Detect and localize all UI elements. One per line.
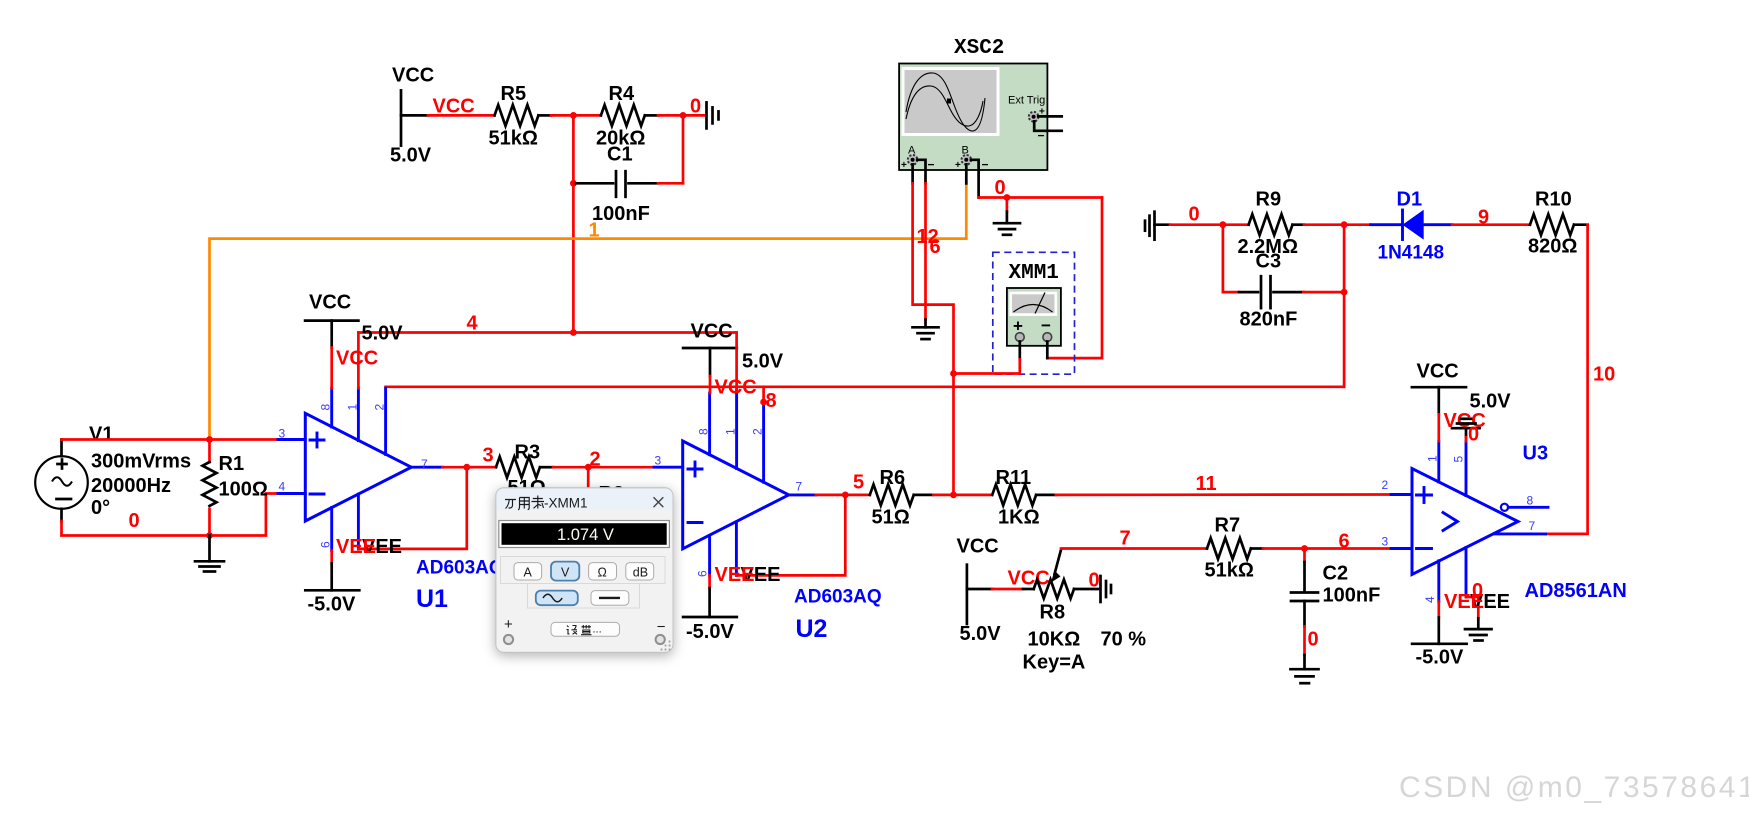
svg-text:U1: U1: [416, 585, 448, 613]
node junction R1 bottom: [206, 532, 213, 539]
dialog button ohm: [589, 563, 617, 580]
wire scope A+ to node 12: [913, 183, 954, 495]
resistor R1: [203, 440, 268, 536]
svg-text:6: 6: [696, 570, 710, 577]
wire net 11: [1056, 493, 1391, 496]
capacitor C3 820nF: [1223, 225, 1304, 331]
svg-text:VCC: VCC: [691, 321, 733, 343]
svg-text:VCC: VCC: [1008, 568, 1050, 590]
dialog plus terminal: [504, 616, 513, 644]
dialog button A: [514, 563, 542, 580]
svg-text:A: A: [524, 565, 533, 579]
svg-text:1KΩ: 1KΩ: [998, 507, 1040, 529]
svg-text:Key=A: Key=A: [1023, 652, 1086, 674]
dialog button sine selected: [536, 591, 578, 606]
svg-text:8: 8: [697, 428, 711, 435]
svg-text:100Ω: 100Ω: [219, 479, 268, 501]
svg-text:R9: R9: [1256, 189, 1282, 211]
svg-text:VCC: VCC: [392, 65, 434, 87]
ground under C2: [1291, 669, 1319, 683]
svg-text:XMM1: XMM1: [1009, 262, 1059, 285]
ground right of R8: [1101, 576, 1112, 602]
node junction net4: [570, 329, 577, 336]
resistor R6: [870, 467, 934, 529]
dialog title CJK and text: [505, 496, 544, 511]
svg-text:1: 1: [346, 404, 360, 411]
wire net 10: [1546, 225, 1588, 534]
wire net0 to XMM1 minus: [1047, 198, 1102, 359]
svg-text:-5.0V: -5.0V: [308, 594, 356, 616]
ground left of R9: [1145, 212, 1170, 240]
resistor R7: [1205, 515, 1264, 582]
svg-text:820Ω: 820Ω: [1528, 236, 1577, 258]
node 8 junction: [760, 399, 767, 406]
svg-text:1.074 V: 1.074 V: [557, 526, 614, 544]
ground under U3 pin6: [1465, 629, 1492, 640]
wire XMM1 plus to node 12: [954, 360, 1020, 374]
wire VCC to R8: [967, 588, 992, 591]
svg-text:R7: R7: [1215, 515, 1241, 537]
svg-text:R3: R3: [515, 442, 541, 464]
svg-text:VEE: VEE: [336, 536, 376, 558]
svg-text:+: +: [955, 160, 961, 171]
node junction C1 left: [570, 180, 577, 187]
svg-text:−: −: [928, 158, 935, 172]
dialog display 1.074 V: [499, 521, 670, 548]
svg-text:3: 3: [1382, 535, 1389, 549]
wire C1 right to node 0: [658, 182, 683, 185]
svg-text:...: ...: [593, 624, 602, 636]
svg-text:3: 3: [483, 445, 494, 467]
wire pin6 U3 to ground: [1466, 597, 1478, 618]
ground right of R4: [707, 102, 719, 128]
node junction R9 right: [1341, 221, 1348, 228]
svg-text:20000Hz: 20000Hz: [91, 475, 171, 497]
svg-text:-XMM1: -XMM1: [544, 496, 588, 511]
svg-text:6: 6: [1339, 531, 1350, 553]
svg-text:AD603AQ: AD603AQ: [794, 587, 882, 608]
wire U2 feedback to pin5: [736, 495, 845, 576]
svg-text:R1: R1: [219, 453, 245, 475]
svg-text:10KΩ: 10KΩ: [1028, 629, 1081, 651]
diode D1 1N4148: [1371, 189, 1452, 264]
wire C3 right to junction: [1303, 291, 1344, 294]
resistor R10: [1528, 189, 1588, 258]
node junction R6/R11/XMM: [950, 492, 957, 499]
svg-text:R4: R4: [609, 83, 635, 105]
dialog button dB: [626, 563, 654, 580]
svg-text:100nF: 100nF: [592, 203, 650, 225]
power VCC supply for R5: [390, 65, 434, 167]
svg-text:VCC: VCC: [957, 536, 999, 558]
resistor R4: [596, 83, 645, 150]
svg-text:VCC: VCC: [309, 292, 351, 314]
ground under scope A-: [913, 327, 939, 339]
wire R3 to U2: [553, 466, 654, 469]
svg-text:1: 1: [1426, 455, 1440, 462]
node 0 junction scope: [1004, 194, 1011, 201]
dialog group boxes: [501, 557, 666, 584]
svg-text:5.0V: 5.0V: [390, 145, 432, 167]
wire pin4 U3 to -5V: [1437, 602, 1440, 618]
op-amp U1 AD603AQ: [278, 388, 442, 551]
svg-text:Ω: Ω: [598, 565, 607, 579]
svg-text:4: 4: [467, 313, 479, 335]
svg-text:R5: R5: [501, 83, 527, 105]
resistor R5: [489, 83, 539, 150]
wire node0 to ground: [1006, 198, 1009, 212]
svg-text:5.0V: 5.0V: [362, 323, 404, 345]
svg-text:R6: R6: [880, 467, 906, 489]
power VCC supply for R8: [957, 536, 1002, 646]
wire net 1 vertical down to net 4: [572, 183, 575, 332]
dialog button V selected: [551, 562, 579, 581]
wire R7 to node 6: [1263, 547, 1391, 550]
svg-text:VEE: VEE: [715, 564, 755, 586]
wire net 8 horizontal long: [386, 385, 1345, 388]
dialog button DC: [591, 591, 629, 606]
svg-text:0: 0: [129, 510, 140, 532]
svg-text:5: 5: [1452, 456, 1466, 463]
wire V1 top to U1 +: [60, 440, 63, 457]
svg-text:11: 11: [1196, 473, 1217, 495]
wire ground to R9: [1170, 223, 1249, 226]
svg-text:1N4148: 1N4148: [1378, 243, 1445, 264]
wire D1 to R10: [1452, 223, 1530, 226]
svg-text:CSDN @m0_73578641: CSDN @m0_73578641: [1399, 771, 1749, 804]
wire U1 output junction: [442, 466, 496, 469]
resistor R3: [467, 442, 553, 500]
dialog minus terminal: [656, 619, 666, 645]
ground under R1: [195, 536, 224, 572]
svg-text:9: 9: [1478, 207, 1489, 229]
potentiometer R8 10K: [1023, 550, 1147, 674]
capacitor C2 100nF: [1291, 549, 1380, 627]
svg-text:7: 7: [1529, 519, 1536, 533]
svg-text:VEE: VEE: [1444, 591, 1484, 613]
oscilloscope XSC2: [899, 37, 1062, 198]
svg-text:U3: U3: [1523, 443, 1549, 465]
node junction V1/R1/orange: [206, 436, 213, 443]
dialog settings button: [551, 622, 620, 636]
node 3 junction U1 out: [463, 464, 470, 471]
svg-text:+: +: [504, 616, 513, 633]
wire VCC stub to pin8 U2: [709, 376, 712, 393]
wire R9 to node 9 junction: [1304, 223, 1371, 226]
svg-text:R11: R11: [996, 467, 1032, 489]
wire net8 to pin2 U2: [762, 387, 765, 402]
svg-text:C2: C2: [1323, 563, 1349, 585]
svg-text:4: 4: [1423, 596, 1437, 603]
svg-text:820nF: 820nF: [1240, 309, 1298, 331]
svg-text:5: 5: [853, 472, 864, 494]
svg-text:7: 7: [1120, 528, 1131, 550]
svg-text:XSC2: XSC2: [954, 37, 1004, 60]
svg-text:300mVrms: 300mVrms: [91, 451, 191, 473]
node 2 junction: [585, 464, 592, 471]
svg-text:51kΩ: 51kΩ: [1205, 560, 1254, 582]
ground scope 0: [994, 223, 1020, 235]
svg-text:100nF: 100nF: [1323, 585, 1381, 607]
svg-text:2: 2: [1382, 478, 1389, 492]
wire R6 to R11: [934, 494, 993, 497]
wire V1 bottom: [60, 509, 63, 521]
comparator U3 AD8561AN: [1391, 441, 1548, 602]
wire junction down to net 8: [1343, 225, 1346, 387]
svg-text:4: 4: [279, 480, 286, 494]
svg-text:R10: R10: [1535, 189, 1572, 211]
svg-text:7: 7: [796, 480, 803, 494]
multimeter XMM1 icon: [993, 252, 1075, 374]
svg-text:3: 3: [655, 454, 662, 468]
power -5.0V bar U3: [1412, 644, 1467, 669]
svg-text:-5.0V: -5.0V: [686, 621, 734, 643]
wire ground to pin5 U3: [1465, 437, 1468, 441]
svg-text:6: 6: [930, 236, 941, 258]
wire orange net from V1 node to scope B: [210, 183, 967, 439]
node junction 12 mid: [950, 370, 957, 377]
dialog resize grip: [660, 640, 670, 650]
wire VCC stub to pin8 U1: [330, 348, 333, 389]
wire C2 to ground: [1303, 627, 1306, 656]
wire C1 branch left: [572, 115, 575, 183]
wire U1 feedback to pin5: [358, 467, 466, 549]
node junction R5/R4/C1: [570, 112, 577, 119]
node 5 junction U2 out: [842, 492, 849, 499]
svg-text:0°: 0°: [91, 497, 110, 519]
svg-text:0: 0: [690, 96, 701, 118]
svg-text:0: 0: [1089, 570, 1100, 592]
wire net4 down to pin1 U1: [357, 333, 360, 389]
svg-text:5.0V: 5.0V: [742, 351, 784, 373]
svg-text:5.0V: 5.0V: [960, 623, 1002, 645]
svg-text:3: 3: [279, 427, 286, 441]
svg-text:AD8561AN: AD8561AN: [1525, 580, 1627, 602]
svg-text:8: 8: [319, 404, 333, 411]
wire net 7 wiper to R7: [1061, 547, 1207, 550]
svg-text:8: 8: [766, 390, 777, 412]
wire pin6 U1 to -5V: [330, 551, 333, 564]
svg-text:−: −: [657, 619, 666, 636]
svg-text:2: 2: [751, 428, 765, 435]
wire net 0 scope: [979, 196, 1102, 199]
svg-text:VCC: VCC: [433, 96, 475, 118]
svg-text:2: 2: [373, 404, 387, 411]
svg-text:0: 0: [995, 177, 1006, 199]
svg-text:1: 1: [724, 428, 738, 435]
svg-text:R8: R8: [1040, 602, 1066, 624]
dialog close button: [654, 497, 664, 507]
svg-text:V1: V1: [89, 424, 113, 446]
svg-text:8: 8: [1527, 494, 1534, 508]
wire U2 output junction: [816, 494, 870, 497]
resistor R2 stub hidden by dialog: [588, 467, 624, 520]
wire pin6 U2 to -5V: [708, 575, 711, 588]
power -5.0V bar U1: [305, 590, 359, 615]
svg-text:+: +: [901, 160, 907, 171]
node 0 junction at R4 right: [680, 112, 687, 119]
ground above pin5 U3: [1452, 419, 1480, 438]
svg-text:VCC: VCC: [1417, 361, 1459, 383]
resistor R9: [1238, 189, 1305, 259]
svg-text:D1: D1: [1397, 189, 1423, 211]
svg-text:AD603AQ: AD603AQ: [416, 558, 504, 579]
wire net 4 horizontal: [358, 331, 736, 334]
capacitor C1 100nF: [573, 144, 658, 226]
wire net4 down to pin1 U2: [735, 333, 738, 391]
power VCC symbol U1: [305, 292, 403, 348]
svg-text:−: −: [982, 158, 989, 172]
wire VCC to R5: [401, 114, 428, 117]
svg-text:0: 0: [1468, 424, 1479, 446]
svg-text:10: 10: [1593, 364, 1615, 386]
svg-text:U2: U2: [796, 615, 828, 643]
node junction R9 left: [1220, 221, 1227, 228]
node junction 6: [1301, 545, 1308, 552]
svg-text:70 %: 70 %: [1101, 629, 1147, 651]
power VCC symbol U2: [683, 321, 784, 377]
svg-text:7: 7: [421, 457, 428, 471]
svg-text:2: 2: [590, 449, 601, 471]
wire R5 to R4: [539, 114, 552, 117]
svg-text:0: 0: [1308, 629, 1319, 651]
source V1: [35, 424, 191, 520]
svg-text:51kΩ: 51kΩ: [489, 128, 538, 150]
svg-text:Ext Trig: Ext Trig: [1008, 95, 1045, 107]
node junction C3 right: [1341, 289, 1348, 296]
svg-text:C3: C3: [1256, 251, 1282, 273]
wire VCC stub to pin1 U3: [1437, 414, 1440, 441]
wire R4 to ground: [645, 114, 658, 117]
power -5.0V bar U2: [683, 617, 737, 643]
svg-text:0: 0: [1189, 204, 1200, 226]
power VCC symbol U3: [1412, 361, 1511, 415]
svg-text:V: V: [561, 565, 570, 579]
svg-text:dB: dB: [633, 565, 648, 579]
svg-text:51Ω: 51Ω: [872, 507, 910, 529]
svg-text:C1: C1: [607, 144, 633, 166]
resistor R11: [992, 467, 1056, 529]
svg-text:6: 6: [319, 541, 333, 548]
svg-text:-5.0V: -5.0V: [1416, 647, 1464, 669]
op-amp U2 AD603AQ: [654, 390, 816, 575]
wire scope A- to ground: [924, 183, 927, 319]
